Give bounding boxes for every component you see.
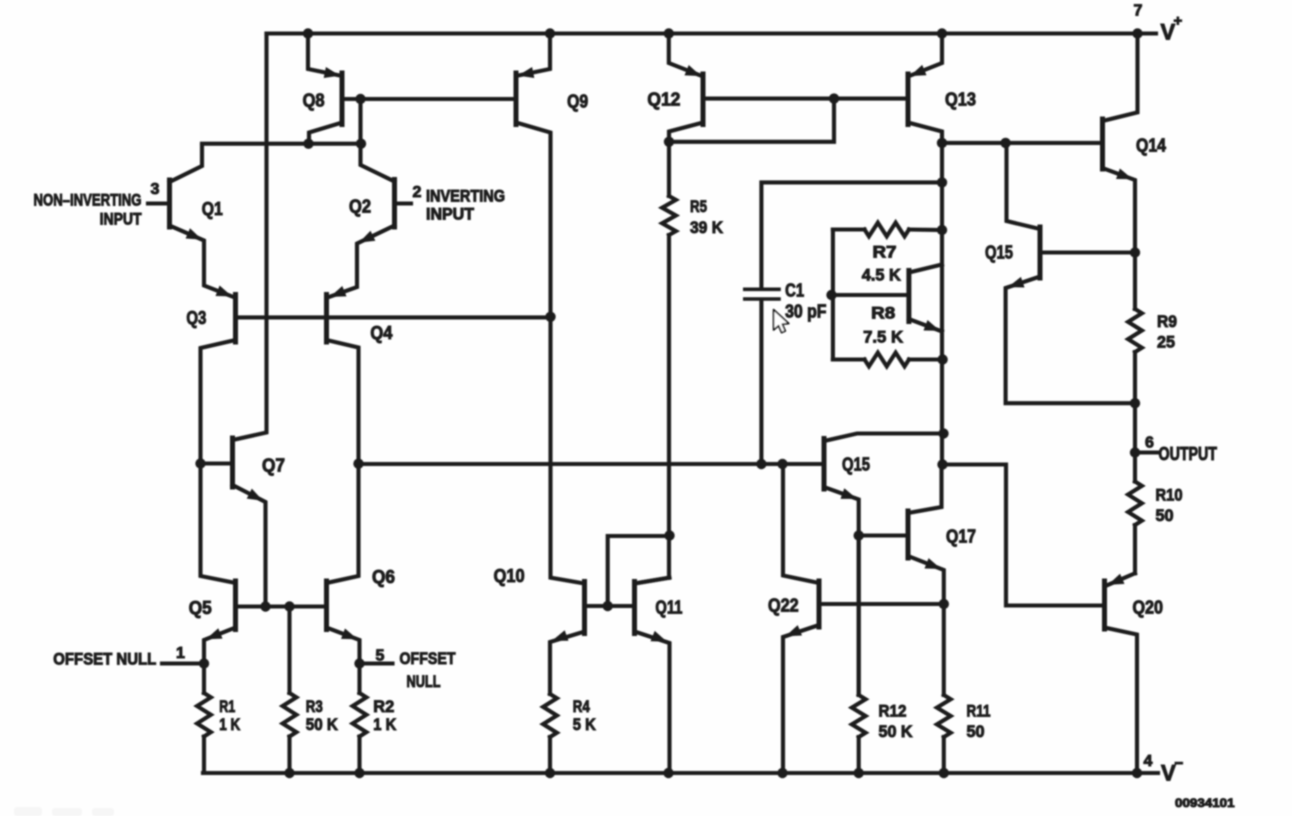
resistor R3 [287,607,291,694]
transistor Q17 emitter [908,556,944,604]
wire Q5-Q6 base rail [236,604,327,608]
node V+ rail / Q8 emitter junction [303,28,313,38]
svg-text:R3: R3 [306,697,323,716]
svg-text:−: − [1175,755,1184,772]
svg-text:1 K: 1 K [219,715,241,734]
svg-text:R10: R10 [1156,486,1183,505]
node R9 bottom junction [1130,398,1140,408]
transistor Q5 emitter [204,628,236,664]
capacitor C1 bottom wire [759,301,763,465]
svg-text:5 K: 5 K [573,715,597,734]
transistor Q2 emitter arrow [359,231,375,243]
node Q11 emitter junction [663,768,673,778]
resistor R5 [662,196,676,235]
svg-text:1: 1 [176,645,185,662]
wire R7-R8 left rail [831,230,835,360]
node Q14 emitter / R9 junction [1130,247,1140,257]
node Q13 collector junction [937,138,947,148]
svg-text:25: 25 [1157,333,1175,352]
resistor R10 [1133,453,1137,482]
svg-text:50: 50 [967,722,985,741]
transistor Q7 bar [230,438,235,487]
transistor Q4 collector [327,340,359,583]
svg-text:NULL: NULL [407,672,441,691]
svg-text:R8: R8 [871,304,895,323]
transistor Q5 bar [233,581,238,630]
node C1 top junction [937,177,947,187]
node Q15 emitter / Q17 base junction [854,530,864,540]
transistor Q22 emitter [783,625,819,773]
transistor Q12 bar [701,74,706,125]
transistor Q10 bar [582,582,587,634]
transistor Q6 bar [324,581,329,630]
transistor Q4 emitter arrow [330,286,347,297]
transistor Q3 emitter arrow [216,286,233,297]
capacitor C1 top wire [761,182,942,287]
transistor Q3 bar [233,295,238,343]
svg-text:R7: R7 [873,243,897,262]
transistor Q7 base wire [201,461,233,465]
node R7 right junction [937,225,947,235]
capacitor C1 plates [745,287,779,291]
transistor Q1 emitter arrow [186,228,202,239]
transistor Q13 emitter [908,34,942,77]
node Q15 collector junction (right) [1000,138,1010,148]
svg-text:+: + [1174,13,1183,30]
transistor Q11 bar [632,582,637,634]
svg-text:7.5 K: 7.5 K [863,328,904,347]
transistor Q12 emitter [669,34,703,77]
transistor Q9 emitter arrow [518,67,534,78]
transistor Q13 bar [906,74,911,125]
node C1 bottom junction [756,459,766,469]
node R11 bottom junction [939,768,949,778]
node Q8 base junction [355,94,365,104]
transistor Q2 collector [361,101,395,182]
resistor R9 [1133,253,1137,310]
wire Q8-Q9 base rail [344,97,516,101]
wire Q12 base-collector tie [669,99,834,142]
transistor Q6 emitter arrow [341,629,358,640]
wire faint artifact marks [14,807,114,816]
svg-text:50 K: 50 K [306,715,339,734]
transistor Q7 collector [233,34,267,441]
node Q22 collector junction [777,459,787,469]
svg-text:Q11: Q11 [655,598,682,618]
transistor Q11 emitter [635,632,670,774]
transistor Q13 collector [908,123,942,465]
node V+ rail / Q12 emitter junction [664,28,674,38]
node Q12 base tie junction [829,93,839,103]
svg-text:30 pF: 30 pF [785,302,826,322]
transistor Q11 emitter arrow [651,631,668,642]
svg-text:R11: R11 [967,702,991,721]
transistor Q15 bar (mid) [822,439,827,490]
svg-text:50: 50 [1156,506,1174,525]
node R3 bottom junction [284,768,294,778]
wire Q3/Q4 base rail [236,315,551,319]
transistor Q17 bar [906,511,911,558]
node Q3 collector / Q7 base junction [195,458,205,468]
svg-text:INPUT: INPUT [426,205,475,224]
transistor Q13 emitter arrow [910,65,927,76]
transistor Q15 collector (mid) [824,434,944,442]
svg-text:00934101: 00934101 [1175,796,1235,810]
wire Q10-Q11 base tie [585,604,635,608]
transistor Q14 emitter arrow [1116,169,1133,180]
wire V+ rail [267,31,1157,35]
transistor Q14 emitter [1103,168,1136,253]
transistor Q14 bar [1100,119,1105,169]
wire Q17 base [859,533,908,537]
resistor R1 [202,664,206,694]
transistor Q20 emitter arrow [1108,574,1125,585]
svg-text:R5: R5 [690,197,707,216]
svg-text:R12: R12 [879,702,907,721]
transistor Q9 collector [516,123,585,584]
node Q10/Q11 base junction [603,601,613,611]
node Q2 collector junction [356,139,366,149]
transistor Q7 emitter [233,485,266,607]
transistor Q10 emitter [550,632,585,695]
node pin 5 junction [354,658,364,668]
svg-text:7: 7 [1134,3,1143,20]
resistor R11 [942,604,946,695]
transistor Q15 emitter arrow (right) [1008,277,1025,288]
svg-text:R4: R4 [573,697,590,716]
transistor Q16 emitter arrow [924,320,941,331]
cursor pointer [774,310,789,333]
transistor Q15 bar (right) [1038,227,1043,278]
transistor Q4 bar [324,295,329,343]
svg-text:R9: R9 [1157,312,1177,331]
node V+ rail / Q13 emitter junction [937,28,947,38]
resistor R12 [857,536,861,696]
node Q4/Q6 collector junction [353,459,363,469]
node Q15 collector junction (mid) [938,428,948,438]
node pin 6 output junction [1130,447,1140,457]
pin 6 lead wire [1135,450,1157,454]
svg-text:NON–INVERTING: NON–INVERTING [34,191,142,210]
resistor R2 [357,664,361,694]
transistor Q1 emitter [170,226,234,298]
transistor Q6 emitter [327,628,360,664]
transistor Q8 collector [309,123,342,144]
svg-text:Q7: Q7 [262,456,285,476]
svg-text:Q14: Q14 [1136,136,1166,156]
node Q7 emitter junction [260,601,270,611]
transistor Q12 collector [669,123,703,197]
transistor Q9 bar [514,73,519,125]
transistor Q15 emitter (right) [1006,277,1135,404]
svg-text:4.5 K: 4.5 K [862,266,902,285]
svg-text:4: 4 [1144,753,1153,770]
transistor Q8 bar [340,73,345,125]
node Q9 collector / base rail junction [545,312,555,322]
wire V- rail [203,771,1158,775]
wire Q16 base [833,293,909,297]
transistor Q22 emitter arrow [786,625,803,636]
transistor Q7 emitter arrow [247,489,263,501]
svg-text:OFFSET: OFFSET [400,649,457,668]
node R8 right junction [937,354,947,364]
transistor Q17 emitter arrow [925,558,942,569]
transistor Q1 collector [170,145,203,182]
transistor Q2 emitter [328,226,395,298]
pin 2 lead wire [395,201,412,205]
svg-text:Q3: Q3 [186,308,206,328]
svg-text:2: 2 [413,184,422,201]
svg-text:Q15: Q15 [842,455,870,475]
wire R9 to output [1133,403,1137,452]
svg-text:Q12: Q12 [647,90,680,110]
svg-text:3: 3 [151,181,160,198]
transistor Q14 collector [1103,34,1138,122]
node V+ rail / Q9 emitter junction [545,28,555,38]
wire Q12-Q13 base rail [705,97,908,101]
wire Q20 base [943,465,1105,606]
svg-text:Q2: Q2 [349,197,371,217]
node pin 7 junction [1132,28,1142,38]
transistor Q1 bar [167,180,172,227]
node R12 bottom junction [854,768,864,778]
node R3 top junction [284,601,294,611]
transistor Q20 emitter [1107,573,1136,585]
transistor Q15 emitter arrow (mid) [841,488,858,499]
svg-text:OUTPUT: OUTPUT [1159,444,1218,464]
transistor Q12 emitter arrow [685,65,702,76]
svg-text:Q6: Q6 [372,567,395,587]
transistor Q15 collector (right) [1007,143,1041,229]
transistor Q15 emitter (mid) [824,487,859,695]
node Q11 collector tie junction [664,530,674,540]
transistor Q8 emitter [308,34,342,77]
svg-text:50 K: 50 K [879,722,914,741]
transistor Q10 emitter arrow [552,630,569,641]
transistor Q20 collector [1105,628,1138,774]
wire input-stage output bus [359,462,825,466]
transistor Q11 collector wire [635,578,670,584]
resistor R8 [833,357,865,361]
svg-text:39 K: 39 K [690,218,724,237]
wire Q15 base (right) [1040,250,1135,254]
svg-text:Q5: Q5 [189,598,212,618]
node R2 bottom junction [354,768,364,778]
node Q12 collector tie junction [664,137,674,147]
transistor Q20 bar [1102,581,1107,629]
transistor Q16 collector [909,265,942,273]
svg-text:R2: R2 [373,697,394,716]
transistor Q5 emitter arrow [206,628,223,639]
transistor Q16 emitter [909,319,942,332]
svg-text:OFFSET NULL: OFFSET NULL [53,650,156,669]
resistor R7 [833,227,865,231]
resistor R4 [543,694,557,737]
transistor Q16 bar [906,271,911,322]
node Q22 emitter junction [777,768,787,778]
svg-text:5: 5 [376,648,385,665]
svg-text:Q17: Q17 [946,527,976,547]
svg-text:Q8: Q8 [303,91,325,111]
node pin 1 junction [199,658,209,668]
svg-text:Q13: Q13 [945,90,976,110]
node R4 bottom junction [545,768,555,778]
transistor Q22 collector [783,464,819,583]
node pin 4 junction [1132,768,1142,778]
svg-text:Q10: Q10 [494,566,525,586]
svg-text:Q20: Q20 [1133,598,1164,618]
node Q17 emitter / R11 junction [939,599,949,609]
svg-text:Q4: Q4 [370,323,392,343]
svg-text:INPUT: INPUT [100,210,143,229]
svg-text:Q22: Q22 [768,596,799,616]
transistor Q17 collector [908,465,942,514]
svg-text:C1: C1 [785,280,804,300]
node Q17 collector junction [937,459,947,469]
wire Q13-Q14 base rail [942,141,1103,145]
svg-text:R1: R1 [219,697,235,716]
svg-text:INVERTING: INVERTING [426,187,505,206]
transistor Q2 bar [392,180,397,228]
wire base-collector tie of Q11 [608,536,670,606]
svg-text:Q15: Q15 [985,243,1013,263]
pin 3 lead wire [148,201,170,205]
node Q16 base junction [826,290,836,300]
transistor Q3 collector [201,340,236,583]
svg-text:1 K: 1 K [373,715,397,734]
wire Q22 base rail [819,602,944,606]
svg-text:Q9: Q9 [567,92,588,112]
svg-text:Q1: Q1 [202,199,223,219]
transistor Q22 bar [817,581,822,627]
wire Q1/Q2 collector bus [202,142,362,146]
pin 1 lead wire [162,661,204,665]
pin 5 lead wire [360,661,393,665]
transistor Q9 emitter [516,34,550,77]
svg-text:6: 6 [1145,435,1154,452]
node Q8 collector junction [303,139,313,149]
transistor Q8 emitter arrow [324,67,340,78]
